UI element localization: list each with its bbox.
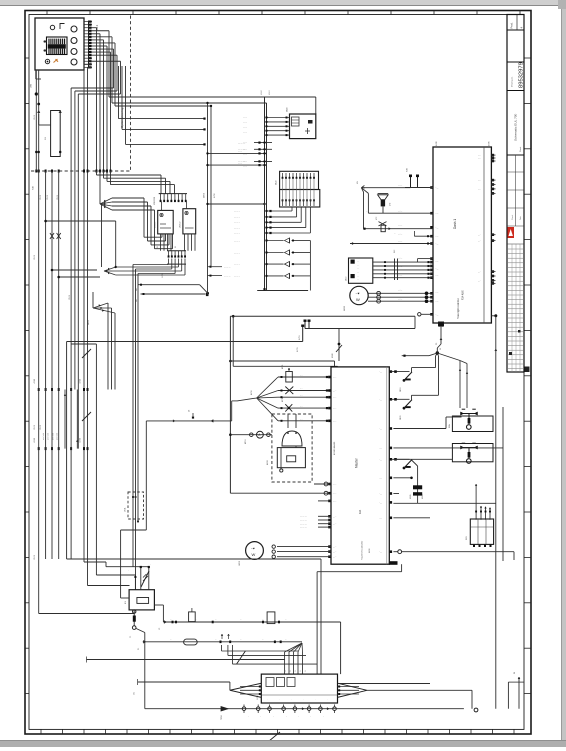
svg-text:1L: 1L (305, 670, 307, 672)
svg-text:··: ·· (128, 570, 130, 572)
svg-text:X42: X42 (394, 250, 396, 253)
svg-text:1W: 1W (134, 692, 136, 695)
svg-text:4X42: 4X42 (80, 378, 82, 384)
svg-text:—···: —··· (333, 524, 337, 526)
svg-text:4S20: 4S20 (332, 352, 334, 358)
svg-text:50: 50 (436, 342, 438, 345)
svg-text:–·: –· (366, 211, 368, 213)
svg-text:·–: ·– (195, 639, 197, 641)
svg-text:—·—: —·— (398, 299, 402, 301)
svg-text:4M10: 4M10 (267, 460, 269, 465)
svg-text:—··: —·· (478, 272, 481, 274)
svg-text:1W10: 1W10 (69, 295, 71, 300)
svg-text:4X51: 4X51 (299, 334, 301, 340)
svg-text:1S41: 1S41 (125, 508, 127, 512)
svg-text:–·–·–: –·–·– (243, 161, 247, 163)
svg-text:4: 4 (520, 27, 524, 29)
svg-text:— — –: — — – (234, 217, 241, 219)
svg-text:4P10: 4P10 (245, 440, 247, 444)
svg-text:····: ···· (357, 269, 359, 271)
svg-text:W: W (514, 672, 516, 674)
svg-text:·–: ·– (215, 639, 217, 641)
svg-text:Travel left controller: Travel left controller (361, 541, 364, 560)
svg-text:···—: ···— (435, 292, 439, 294)
svg-text:—·—: —·— (398, 266, 402, 268)
svg-text:·–: ·– (215, 619, 217, 621)
svg-text:—··: —·· (478, 189, 481, 191)
svg-text:·–: ·– (285, 639, 287, 641)
svg-text:– –: – – (300, 395, 303, 397)
svg-text:–·–·–: –·–·– (243, 149, 247, 151)
svg-text:1W10: 1W10 (34, 425, 36, 430)
svg-text:—·—: —·— (398, 234, 402, 236)
svg-text:F2A: F2A (359, 509, 362, 514)
svg-text:26S: 26S (466, 536, 468, 540)
svg-text:— — —: — — — (224, 267, 231, 269)
svg-text:–: – (310, 716, 311, 718)
svg-text:X80/200: X80/200 (154, 196, 156, 205)
svg-text:4V50: 4V50 (251, 391, 253, 395)
svg-text:— — –: — — – (234, 227, 241, 229)
svg-text:4X31: 4X31 (297, 346, 299, 352)
svg-text:85: 85 (157, 246, 159, 248)
svg-text:4H2: 4H2 (390, 203, 392, 206)
svg-text:··—: ··— (379, 518, 382, 520)
svg-text:—···: —··· (333, 377, 337, 379)
svg-text:K1: K1 (125, 601, 127, 604)
svg-text:1K05.1: 1K05.1 (155, 221, 157, 228)
svg-text:Master: Master (355, 457, 359, 468)
svg-text:·: · (291, 699, 293, 700)
svg-text:~♥: ~♥ (356, 292, 360, 296)
svg-text:–: – (260, 716, 261, 718)
svg-text:·: · (327, 699, 329, 700)
svg-text:F2A 4L60: F2A 4L60 (462, 289, 465, 300)
svg-text:— — —: — — — (300, 520, 307, 522)
svg-text:— — –: — — – (234, 240, 241, 242)
svg-text:–·–·–: –·–·– (243, 154, 247, 156)
svg-text:4Y31: 4Y31 (282, 365, 284, 369)
svg-text:—·—: —·— (398, 185, 402, 187)
svg-text:1L: 1L (295, 670, 297, 672)
svg-text:S1: S1 (45, 137, 47, 140)
svg-text:89532979: 89532979 (519, 62, 525, 88)
svg-text:···—: ···— (435, 268, 439, 270)
svg-text:·–: ·– (262, 619, 264, 621)
svg-text:1L: 1L (290, 670, 292, 672)
svg-text:1W0: 1W0 (31, 83, 33, 88)
svg-text:4A10: 4A10 (275, 179, 278, 185)
svg-text:— — –: — — – (234, 211, 241, 213)
svg-text:—··: —·· (478, 280, 481, 282)
svg-text:– –: – – (300, 418, 303, 420)
svg-text:~♥: ~♥ (251, 547, 255, 551)
svg-text:— — –: — — – (234, 276, 241, 278)
svg-text:···—: ···— (435, 261, 439, 263)
svg-text:·: · (267, 699, 269, 700)
svg-text:—···: —··· (333, 547, 337, 549)
svg-text:·–: ·– (262, 639, 264, 641)
svg-text:··—: ··— (379, 459, 382, 461)
svg-text:1W10: 1W10 (40, 195, 42, 200)
svg-text:1W10: 1W10 (34, 115, 36, 120)
svg-text:–·–·–: –·–·– (243, 122, 247, 124)
svg-text:4Y30: 4Y30 (282, 398, 284, 402)
svg-text:·: · (279, 699, 281, 700)
svg-text:····: ···· (357, 272, 359, 274)
svg-text:1W10: 1W10 (47, 195, 49, 200)
svg-text:····: ···· (357, 262, 359, 264)
svg-text:···—: ···— (435, 314, 439, 316)
svg-text:—·—: —·— (398, 275, 402, 277)
svg-text:4M20: 4M20 (344, 305, 346, 311)
svg-text:—··: —·· (478, 241, 481, 243)
svg-text:– –: – – (300, 388, 303, 390)
svg-text:X625: X625 (422, 495, 424, 499)
svg-text:Date: Date (519, 216, 522, 220)
svg-text:4X85: 4X85 (489, 140, 491, 146)
svg-text:··—: ··— (379, 372, 382, 374)
svg-text:4X42: 4X42 (80, 437, 82, 443)
svg-text:··—: ··— (379, 399, 382, 401)
svg-text:4Y2: 4Y2 (376, 217, 378, 220)
svg-text:·–: ·– (170, 619, 172, 621)
svg-text:–: – (286, 716, 287, 718)
svg-text:26A: 26A (448, 424, 451, 428)
svg-text:Y1: Y1 (130, 636, 132, 638)
svg-text:··—: ··— (379, 494, 382, 496)
svg-text:wire label: wire label (42, 432, 45, 440)
svg-text:4X50: 4X50 (214, 192, 216, 198)
svg-text:—···: —··· (333, 421, 337, 423)
svg-text:— —: — — (238, 151, 242, 153)
svg-text:··—: ··— (379, 502, 382, 504)
svg-text:4W51: 4W51 (269, 90, 271, 95)
svg-text:···—: ···— (435, 213, 439, 215)
svg-text:·–: ·– (240, 619, 242, 621)
svg-text:15: 15 (159, 627, 161, 630)
svg-text:—··: —·· (478, 158, 481, 160)
svg-text:1L: 1L (285, 670, 287, 672)
svg-text:4A50: 4A50 (286, 106, 289, 112)
svg-text:– –: – – (300, 406, 303, 408)
svg-text:—···: —··· (333, 501, 337, 503)
svg-text:4W50: 4W50 (261, 90, 263, 95)
svg-text:··: ·· (150, 564, 152, 566)
svg-text:1M50: 1M50 (239, 560, 241, 566)
svg-text:4X42: 4X42 (34, 437, 36, 443)
svg-text:–: – (298, 716, 299, 718)
svg-text:—·—: —·— (398, 290, 402, 292)
svg-text:1W10: 1W10 (34, 555, 36, 560)
svg-text:—···: —··· (333, 484, 337, 486)
svg-text:wire label: wire label (56, 432, 59, 440)
svg-text:1L: 1L (300, 670, 302, 672)
svg-text:–·–·–: –·–·– (243, 117, 247, 119)
svg-text:—···: —··· (333, 493, 337, 495)
svg-text:1W10: 1W10 (57, 195, 59, 200)
svg-text:4X42: 4X42 (34, 378, 36, 384)
svg-text:·: · (315, 699, 317, 700)
svg-text:····: ···· (357, 276, 359, 278)
svg-text:— — –: — — – (234, 252, 241, 254)
svg-text:4X80: 4X80 (436, 140, 438, 146)
svg-text:4W: 4W (357, 181, 359, 184)
svg-text:··—: ··— (379, 478, 382, 480)
svg-text:—·—: —·— (398, 241, 402, 243)
svg-text:— — —: — — — (300, 527, 307, 529)
svg-text:Prod.: Prod. (510, 22, 514, 28)
svg-text:···—: ···— (435, 188, 439, 190)
svg-text:····: ···· (357, 265, 359, 267)
svg-text:TR50: TR50 (221, 715, 223, 720)
svg-text:—··: —·· (478, 180, 481, 182)
svg-text:–·–·–: –·–·– (243, 142, 247, 144)
svg-text:···—: ···— (435, 275, 439, 277)
svg-text:·–: ·– (170, 639, 172, 641)
svg-text:1W10: 1W10 (34, 255, 36, 260)
svg-text:—···: —··· (333, 516, 337, 518)
svg-text:—··: —·· (478, 235, 481, 237)
svg-text:Sheet: Sheet (519, 146, 522, 152)
svg-text:—···: —··· (333, 391, 337, 393)
svg-text:—·—: —·— (398, 211, 402, 213)
svg-text:X40: X40 (33, 185, 35, 190)
svg-text:4L06: 4L06 (369, 548, 371, 553)
svg-text:–·–·–: –·–·– (243, 132, 247, 134)
svg-text:—·—: —·— (398, 225, 402, 227)
svg-text:—···: —··· (333, 557, 337, 559)
svg-text:Dash 1: Dash 1 (453, 219, 457, 229)
svg-text:···—: ···— (435, 244, 439, 246)
svg-text:·–: ·– (240, 639, 242, 641)
svg-text:W: W (356, 297, 360, 302)
svg-text:—···: —··· (333, 397, 337, 399)
svg-text:·–: ·– (394, 233, 396, 235)
svg-text:····: ···· (357, 280, 359, 282)
svg-text:···—: ···— (435, 236, 439, 238)
svg-text:– –: – – (300, 375, 303, 377)
svg-text:wire label: wire label (47, 432, 50, 440)
svg-text:—··: —·· (478, 155, 481, 157)
svg-text:···—: ···— (435, 227, 439, 229)
svg-text:W: W (252, 552, 256, 557)
svg-text:–: – (248, 716, 249, 718)
svg-text:— — —: — — — (300, 524, 307, 526)
svg-text:1K05.2: 1K05.2 (180, 221, 182, 228)
svg-text:31: 31 (138, 647, 140, 650)
svg-text:— —: — — (238, 163, 242, 165)
svg-text:4X: 4X (189, 409, 191, 412)
svg-text:2B2V: 2B2V (400, 415, 402, 420)
svg-text:2B1V: 2B1V (400, 387, 402, 392)
svg-text:··—: ··— (379, 552, 382, 554)
svg-text:–: – (323, 716, 324, 718)
svg-text:··—: ··— (379, 429, 382, 431)
svg-text:—···: —··· (333, 408, 337, 410)
svg-text:4M50: 4M50 (204, 192, 206, 198)
svg-text:— — –: — — – (234, 264, 241, 266)
svg-text:4X100 4A100: 4X100 4A100 (333, 441, 336, 455)
svg-text:X605: X605 (410, 495, 412, 499)
svg-text:— — –: — — – (234, 222, 241, 224)
svg-text:··—: ··— (379, 448, 382, 450)
svg-text:1W10: 1W10 (40, 425, 42, 430)
svg-text:·–: ·– (285, 619, 287, 621)
svg-text:Trans light controller: Trans light controller (457, 298, 460, 319)
svg-text:X30: X30 (407, 167, 409, 172)
svg-text:—·—: —·— (398, 257, 402, 259)
svg-text:···—: ···— (435, 301, 439, 303)
svg-text:·: · (303, 699, 305, 700)
svg-text:Schematic EUL 730: Schematic EUL 730 (514, 113, 518, 141)
svg-text:86: 86 (175, 246, 177, 248)
svg-text:–·–·–: –·–·– (243, 127, 247, 129)
svg-text:4B10: 4B10 (346, 277, 348, 281)
svg-text:–: – (273, 716, 274, 718)
svg-text:50: 50 (440, 348, 442, 350)
svg-text:— — —: — — — (300, 516, 307, 518)
svg-text:— — —: — — — (224, 276, 231, 278)
svg-text:— — –: — — – (234, 233, 241, 235)
svg-text:Check: Check (512, 215, 514, 220)
svg-text:—···: —··· (333, 552, 337, 554)
svg-text:–·–·–: –·–·– (243, 166, 247, 168)
svg-text:Drawing no.: Drawing no. (512, 76, 514, 87)
svg-text:·–: ·– (195, 619, 197, 621)
svg-text:DK05: DK05 (88, 319, 90, 325)
